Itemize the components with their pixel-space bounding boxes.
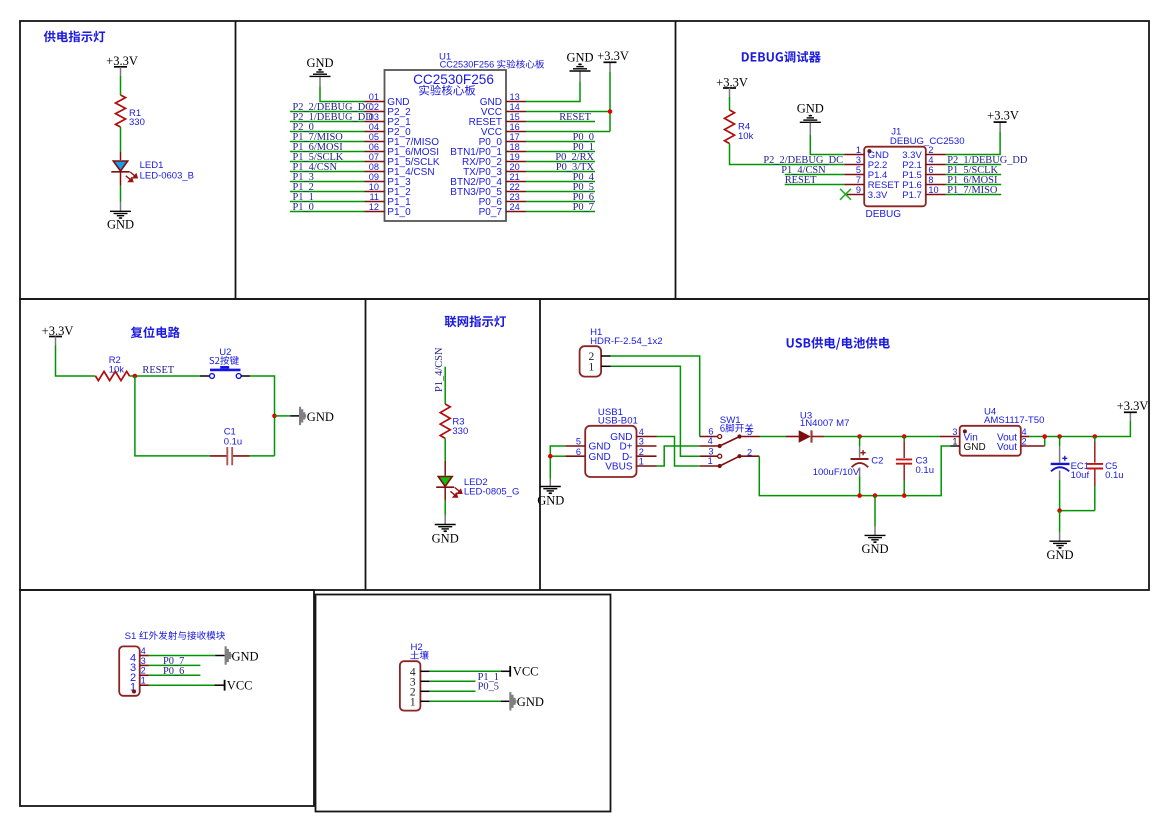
ground GND (C2/C3) — [861, 535, 888, 556]
wire net P2_2/DEBUG_DC — [290, 102, 372, 113]
node junction pin2 — [1042, 434, 1047, 439]
resistor R1 330 — [116, 95, 145, 128]
wire net P0_6 — [149, 666, 201, 677]
svg-text:6: 6 — [576, 447, 581, 457]
pin 11 U1 P1_1 — [365, 192, 412, 208]
svg-text:10: 10 — [369, 182, 379, 192]
svg-text:1: 1 — [952, 437, 957, 447]
ground GND (reset) — [299, 407, 334, 425]
svg-text:P1_7/MISO: P1_7/MISO — [947, 185, 998, 196]
pin 2 USB1 D- — [622, 447, 657, 463]
svg-text:330: 330 — [452, 426, 468, 437]
svg-text:GND: GND — [307, 410, 334, 424]
wire H1 pin2 to SW1 pin6 — [611, 356, 700, 437]
pin 2 J1 3.3V — [902, 145, 946, 161]
pin 2 H2 — [420, 690, 429, 692]
wire rail to ground — [874, 496, 876, 526]
pin 5 J1 P1.4 — [844, 165, 887, 181]
connector H2 body — [400, 661, 421, 710]
pin 4 USB1 GND — [610, 427, 656, 443]
node junction RESET — [133, 374, 138, 379]
power +3.3V (output) — [1117, 399, 1149, 421]
svg-text:20: 20 — [510, 162, 520, 172]
block title 供电指示灯 — [44, 31, 105, 43]
pin 2 U4 Vout — [1021, 437, 1045, 447]
ground GND (U1 pin 13) — [566, 51, 593, 72]
node junction VCC — [608, 109, 613, 114]
op-amp U1 CC2530F256 body — [385, 51, 507, 221]
svg-text:P1_0: P1_0 — [293, 202, 314, 213]
node junction C3 top — [902, 434, 907, 439]
pin 04 U1 P2_0 — [365, 122, 412, 138]
svg-text:GND: GND — [566, 51, 593, 65]
wire net P1_6/MOSI — [946, 175, 1001, 186]
pin 07 U1 P1_5/SCLK — [365, 152, 440, 168]
wire net P0_2/RX — [526, 152, 595, 163]
node junction C2 top — [857, 434, 862, 439]
pin 8 J1 P1.6 — [902, 175, 946, 191]
svg-text:P1_4/CSN: P1_4/CSN — [434, 347, 445, 392]
svg-text:04: 04 — [369, 122, 379, 132]
pin 12 U1 P1_0 — [365, 202, 412, 218]
wire net P1_5/SCLK — [290, 152, 365, 163]
wire net P1_7/MISO — [946, 185, 1001, 196]
pin 6 USB1 GND — [565, 447, 611, 463]
wire J1 pin2 to +3.3V — [946, 131, 1000, 154]
svg-text:LED-0805_G: LED-0805_G — [464, 486, 519, 497]
svg-text:6: 6 — [928, 165, 933, 175]
resistor R4 10k — [725, 110, 754, 144]
svg-text:1: 1 — [141, 676, 146, 686]
svg-text:16: 16 — [510, 122, 520, 132]
svg-text:GND: GND — [1046, 548, 1073, 562]
svg-text:S1: S1 — [125, 631, 137, 642]
power VCC (S1) — [225, 679, 253, 693]
power +3.3V (U1) — [597, 49, 629, 72]
node junction C5 — [1093, 434, 1098, 439]
ground GND (J1 pin1) — [797, 102, 824, 123]
capacitor C2 100uF/10V — [813, 437, 884, 496]
ground GND (LED1) — [107, 211, 134, 231]
svg-text:RESET: RESET — [559, 112, 591, 123]
wire +3.3V to R2 — [55, 337, 57, 346]
connector H1 HDR-F-2.54_1x2 — [580, 327, 663, 377]
capacitor C5 0.1u — [1087, 437, 1124, 511]
pin 3 J1 P2.2 — [844, 155, 887, 171]
svg-text:RESET: RESET — [785, 175, 817, 186]
wire net P1_4/CSN — [290, 162, 365, 173]
block title USB供电/电池供电 — [787, 337, 890, 350]
wire C5 bottom to EC1 — [1060, 510, 1095, 512]
svg-text:RESET: RESET — [142, 365, 174, 376]
svg-text:24: 24 — [510, 202, 520, 212]
node junction (GND tap) — [272, 414, 277, 419]
wire net P0_7 — [149, 656, 201, 667]
svg-text:GND: GND — [964, 442, 986, 453]
switch SW1 6脚开关 — [699, 415, 760, 468]
pin 1 marker J1 — [867, 149, 871, 153]
wire LED1 to ground — [120, 172, 122, 186]
pin 5 USB1 GND — [565, 437, 611, 453]
wire S1 pin4 to GND — [149, 655, 215, 657]
node junction rail (C3) — [902, 493, 907, 498]
block title DEBUG调试器 — [742, 51, 821, 63]
svg-text:+3.3V: +3.3V — [987, 109, 1019, 123]
pin 17 U1 P0_0 — [479, 132, 526, 148]
svg-text:18: 18 — [510, 142, 520, 152]
wire USB1 pin4 to SW1 pin1 — [657, 437, 700, 467]
node junction EC1 — [1057, 434, 1062, 439]
wire net P1_5/SCLK — [946, 165, 1001, 176]
svg-text:5: 5 — [856, 165, 861, 175]
svg-text:GND: GND — [797, 102, 824, 116]
svg-text:0.1u: 0.1u — [1105, 470, 1124, 481]
wire LED2 to ground — [444, 487, 446, 500]
svg-text:8: 8 — [928, 175, 933, 185]
svg-text:4: 4 — [1022, 427, 1027, 437]
svg-text:GND: GND — [107, 217, 134, 231]
wire R4 to J1 pin3 — [730, 144, 845, 165]
pin 3 U4 Vin — [940, 427, 960, 437]
svg-text:5: 5 — [747, 427, 752, 437]
wire bottom rail — [759, 446, 950, 496]
diode U3 1N4007 M7 — [786, 410, 850, 442]
wire R1 to LED1 — [120, 127, 122, 152]
label CC2530F256 实验核心板 (above U1) — [440, 60, 545, 70]
power +3.3V (R4) — [716, 75, 748, 89]
pin 19 U1 RX/P0_2 — [462, 152, 526, 168]
svg-text:CC2530F256: CC2530F256 — [413, 72, 494, 87]
svg-text:GND: GND — [517, 695, 544, 709]
svg-text:P0_7: P0_7 — [573, 202, 594, 213]
wire net stub to R3 — [444, 367, 446, 404]
pin 2 H1 — [601, 355, 610, 357]
svg-text:VCC: VCC — [227, 679, 253, 693]
pin 10 U1 P1_2 — [365, 182, 412, 198]
svg-text:1: 1 — [410, 696, 416, 708]
label S1 红外发射与接收模块 — [125, 631, 225, 642]
wire R2 to button — [130, 375, 201, 377]
svg-text:AMS1117-T50: AMS1117-T50 — [984, 415, 1044, 426]
pin 1 H2 — [420, 700, 429, 702]
svg-text:VCC: VCC — [513, 665, 539, 679]
svg-text:11: 11 — [369, 192, 379, 202]
ground GND (EC1/C5) — [1046, 541, 1073, 562]
pin 1 marker S1 — [132, 690, 136, 694]
svg-text:08: 08 — [369, 162, 379, 172]
wire net P2_1/DEBUG_DD — [946, 155, 1028, 166]
regulator U4 AMS1117-T50 — [960, 406, 1045, 455]
wire U1 pin14/16 VCC to +3.3V — [526, 111, 610, 113]
wire USB1 gnd pins to ground — [550, 446, 565, 479]
svg-text:3: 3 — [856, 155, 861, 165]
svg-text:3: 3 — [952, 427, 957, 437]
pin 6 J1 P1.5 — [902, 165, 946, 181]
wire C1 loop — [250, 455, 275, 457]
ground GND (S1) — [225, 646, 259, 664]
svg-text:6: 6 — [708, 427, 713, 437]
svg-text:10uf: 10uf — [1071, 470, 1090, 481]
svg-text:10k: 10k — [738, 131, 754, 142]
svg-text:VBUS: VBUS — [605, 462, 633, 473]
pin 9 J1 3.3V — [844, 185, 888, 201]
wire U1 pin13 to GND — [526, 82, 580, 102]
power VCC (H2) — [510, 665, 538, 679]
wire H1 pin1 to SW1 pin3 — [611, 366, 700, 456]
ground GND (U1 pin 1) — [306, 56, 333, 77]
svg-text:10k: 10k — [109, 364, 125, 375]
ground GND (LED2) — [432, 525, 459, 546]
wire R3 to LED2 — [444, 438, 446, 461]
node junction EC1 bottom — [1057, 508, 1062, 513]
LED LED1 LED-0603_B — [111, 160, 194, 182]
svg-text:21: 21 — [510, 172, 520, 182]
svg-text:1: 1 — [856, 145, 861, 155]
svg-text:05: 05 — [369, 132, 379, 142]
pin 4 J1 P2.1 — [902, 155, 946, 171]
svg-text:1: 1 — [708, 456, 713, 466]
wire to side ground — [275, 415, 291, 417]
ground GND (H2) — [509, 692, 544, 710]
wire net P1_7/MISO — [290, 132, 365, 143]
svg-text:330: 330 — [129, 117, 145, 128]
pin 1 J1 GND — [844, 145, 889, 161]
svg-text:4: 4 — [928, 155, 933, 165]
block title 复位电路 — [131, 326, 180, 338]
wire net P0_4 — [526, 172, 595, 183]
connector J1 DEBUG_CC2530 body — [864, 126, 964, 220]
wire net P1_4/CSN (J1 pin5) — [781, 165, 844, 176]
svg-text:4: 4 — [708, 436, 713, 446]
svg-text:P0_5: P0_5 — [478, 682, 499, 693]
svg-text:LED-0603_B: LED-0603_B — [140, 170, 194, 181]
node junction rail (gnd) — [873, 493, 878, 498]
svg-text:10: 10 — [928, 185, 938, 195]
wire net P0_5 — [430, 682, 499, 693]
svg-text:P0_6: P0_6 — [163, 666, 184, 677]
wire net P0_3/TX — [526, 162, 595, 173]
svg-text:7: 7 — [856, 175, 861, 185]
wire USB1 pin1 VBUS to SW1 pin4 — [657, 446, 700, 466]
wire net RESET (J1 pin7) — [785, 175, 845, 186]
svg-text:1: 1 — [639, 457, 644, 467]
wire net P0_0 — [526, 132, 595, 143]
pin 13 U1 GND — [480, 92, 526, 108]
pin 21 U1 BTN2/P0_4 — [450, 172, 526, 188]
wire H2 pin1 to GND — [430, 700, 501, 702]
wire net P0_7 — [526, 202, 595, 213]
pin 22 U1 BTN3/P0_5 — [450, 182, 526, 198]
svg-text:DEBUG_CC2530: DEBUG_CC2530 — [890, 136, 965, 147]
svg-text:Vout: Vout — [997, 442, 1017, 453]
pin 1 USB1 VBUS — [605, 457, 656, 473]
wire +3.3V to R1 — [120, 67, 122, 76]
svg-text:07: 07 — [369, 152, 379, 162]
svg-text:P1_0: P1_0 — [387, 207, 411, 218]
svg-text:3: 3 — [708, 446, 713, 456]
svg-text:9: 9 — [856, 185, 861, 195]
svg-text:U2: U2 — [219, 347, 231, 358]
pin 1 H1 — [601, 365, 610, 367]
wire GND to J1 pin1 — [809, 123, 811, 135]
pin 23 U1 P0_6 — [479, 192, 526, 208]
svg-text:C2: C2 — [871, 456, 883, 467]
push button U2 S2按键 — [200, 347, 250, 379]
pin 3 USB1 D+ — [619, 437, 656, 453]
svg-text:0.1u: 0.1u — [916, 465, 935, 476]
connector S1 body — [119, 646, 140, 695]
pin 02 U1 P2_2 — [365, 102, 412, 118]
label 实验核心板 (inside U1) — [419, 85, 475, 96]
wire net P1_2 — [290, 182, 365, 193]
svg-text:2: 2 — [1022, 437, 1027, 447]
connector H2 土壤 labels — [410, 642, 428, 659]
svg-text:1: 1 — [589, 361, 595, 373]
svg-text:P1.7: P1.7 — [902, 190, 922, 201]
wire SW1 pin5 to diode — [760, 436, 786, 438]
svg-text:4: 4 — [141, 646, 146, 656]
wire diode to U4 Vin — [824, 436, 940, 438]
svg-text:P0_7: P0_7 — [479, 207, 503, 218]
pin 1 S1 — [140, 676, 149, 686]
wire S1 pin1 to VCC — [149, 684, 215, 686]
svg-text:5: 5 — [576, 437, 581, 447]
wire net P1_6/MOSI — [290, 142, 365, 153]
wire to ground (EC1) — [1059, 511, 1061, 532]
pin 14 U1 VCC — [481, 102, 526, 118]
node junction rail (C2) — [857, 493, 862, 498]
power +3.3V (J1) — [987, 109, 1019, 132]
svg-text:3: 3 — [141, 656, 146, 666]
svg-text:15: 15 — [510, 112, 520, 122]
pin 4 U4 Vout — [1021, 427, 1030, 437]
svg-text:GND: GND — [537, 493, 564, 507]
pin 24 U1 P0_7 — [479, 202, 526, 218]
pin 09 U1 P1_3 — [365, 172, 412, 188]
wire net P2_0 — [290, 122, 365, 133]
no-connect X (J1 pin9) — [840, 189, 851, 200]
pin 08 U1 P1_4/CSN — [365, 162, 435, 178]
pin 7 J1 RESET — [844, 175, 899, 191]
svg-text:100uF/10V: 100uF/10V — [813, 467, 860, 478]
connector USB1 USB-B01 body — [585, 407, 638, 477]
svg-text:13: 13 — [510, 92, 520, 102]
pin 20 U1 TX/P0_3 — [463, 162, 526, 178]
svg-text:GND: GND — [306, 56, 333, 70]
svg-text:23: 23 — [510, 192, 520, 202]
block title 联网指示灯 — [445, 315, 506, 327]
pin 18 U1 BTN1/P0_1 — [450, 142, 526, 158]
wire net P2_1/DEBUG_DD — [290, 112, 373, 123]
pin 15 U1 RESET — [469, 112, 526, 128]
wire net P0_5 — [526, 182, 595, 193]
wire +3.3V to R4 — [729, 88, 731, 97]
svg-text:DEBUG: DEBUG — [866, 209, 902, 220]
pin 4 S1 — [140, 646, 149, 656]
wire GND to U1 pin 1 — [319, 77, 321, 87]
node junction USB gnd — [548, 454, 553, 459]
pin 3 S1 — [140, 656, 149, 666]
svg-text:3.3V: 3.3V — [868, 190, 888, 201]
pin 06 U1 P1_6/MOSI — [365, 142, 440, 158]
pin 03 U1 P2_1 — [365, 112, 412, 128]
pin 1 marker U4 — [963, 429, 967, 433]
svg-text:USB-B01: USB-B01 — [598, 416, 638, 427]
pin 3 H2 — [420, 680, 429, 682]
svg-text:12: 12 — [369, 202, 379, 212]
pin 16 U1 VCC — [481, 122, 526, 138]
pin 01 U1 GND — [365, 92, 410, 108]
svg-text:GND: GND — [861, 542, 888, 556]
power +3.3V (LED1 branch) — [106, 54, 138, 68]
wire button to GND/C1 — [250, 376, 274, 456]
svg-text:GND: GND — [232, 649, 259, 663]
svg-text:HDR-F-2.54_1x2: HDR-F-2.54_1x2 — [590, 336, 663, 347]
svg-text:0.1u: 0.1u — [224, 436, 243, 447]
wire net P0_1 — [526, 142, 595, 153]
capacitor EC1 10uf — [1051, 437, 1090, 511]
svg-text:+3.3V: +3.3V — [1117, 399, 1149, 413]
svg-text:CC2530F256: CC2530F256 — [440, 60, 495, 70]
power +3.3V (reset) — [42, 324, 74, 338]
wire net P1_0 — [290, 202, 365, 213]
svg-text:4: 4 — [639, 427, 644, 437]
svg-text:2: 2 — [141, 666, 146, 676]
wire output rail to +3.3V — [1029, 421, 1130, 437]
svg-text:2: 2 — [928, 145, 933, 155]
resistor R2 10k — [96, 355, 130, 381]
resistor R3 330 — [440, 404, 468, 438]
svg-text:GND: GND — [432, 532, 459, 546]
pin 10 J1 P1.7 — [902, 185, 946, 201]
capacitor C3 0.1u — [896, 437, 934, 496]
wire net P1_1 — [430, 672, 499, 683]
svg-text:1N4007 M7: 1N4007 M7 — [800, 418, 850, 429]
wire net P1_1 — [290, 192, 365, 203]
pin 1 U4 GND — [951, 437, 960, 447]
ground GND (USB1) — [537, 487, 564, 508]
svg-text:06: 06 — [369, 142, 379, 152]
capacitor C1 0.1u — [210, 427, 250, 466]
wire net P0_6 — [526, 192, 595, 203]
svg-text:09: 09 — [369, 172, 379, 182]
wire net RESET (U1 pin15) — [526, 112, 595, 123]
svg-text:14: 14 — [510, 102, 520, 112]
svg-text:19: 19 — [510, 152, 520, 162]
svg-text:22: 22 — [510, 182, 520, 192]
svg-text:2: 2 — [747, 447, 752, 457]
wire U4 pin2 riser — [1044, 437, 1046, 447]
svg-text:3: 3 — [639, 437, 644, 447]
svg-text:+3.3V: +3.3V — [597, 49, 629, 63]
svg-text:01: 01 — [369, 92, 379, 102]
wire H2 pin4 to VCC — [430, 670, 501, 672]
svg-text:17: 17 — [510, 132, 520, 142]
LED LED2 LED-0805_G — [436, 477, 519, 498]
svg-text:2: 2 — [639, 447, 644, 457]
wire net P1_3 — [290, 172, 365, 183]
pin 4 H2 — [420, 670, 429, 672]
pin 2 S1 — [140, 666, 149, 676]
pin 05 U1 P1_7/MISO — [365, 132, 440, 148]
